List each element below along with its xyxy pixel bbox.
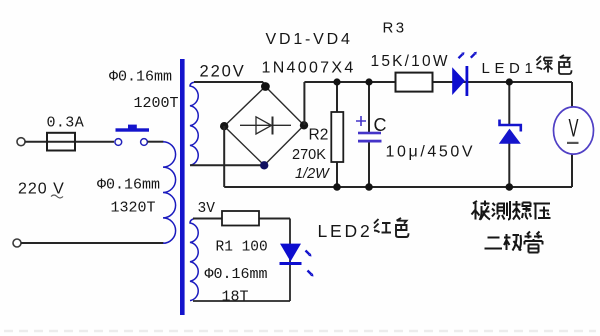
node bottom corner	[260, 161, 268, 169]
terminal J1 (mains top)	[17, 138, 25, 146]
zener diode under test	[508, 82, 510, 125]
svg-text:1/2W: 1/2W	[295, 166, 330, 182]
wire top rail	[304, 81, 572, 83]
bridge rectifier VD1-VD4 diamond	[224, 87, 304, 166]
LED1 light arrows	[459, 54, 475, 59]
transformer tertiary winding 18T	[190, 219, 198, 301]
wire	[21, 242, 164, 244]
svg-text:VD1-VD4: VD1-VD4	[266, 31, 353, 48]
transformer core	[180, 59, 185, 315]
svg-text:LED2: LED2	[318, 221, 373, 241]
wire secondary bottom to bridge	[190, 164, 263, 166]
node left corner	[220, 122, 228, 130]
svg-text:Φ0.16mm: Φ0.16mm	[97, 177, 160, 194]
voltmeter V	[571, 82, 573, 108]
svg-text:10μ/450V: 10μ/450V	[386, 144, 476, 161]
wire secondary top to bridge	[194, 81, 263, 83]
transformer T1 primary winding 1320T	[163, 142, 176, 244]
terminal J2 (mains bottom)	[13, 239, 21, 247]
wire switch to primary	[148, 141, 164, 143]
LED1	[452, 67, 465, 95]
resistor R1	[222, 211, 259, 226]
svg-text:270K: 270K	[292, 147, 326, 163]
svg-text:LED1: LED1	[482, 60, 538, 77]
svg-text:1200T: 1200T	[134, 95, 179, 112]
svg-text:Φ0.16mm: Φ0.16mm	[205, 266, 268, 283]
switch S contact left	[115, 139, 122, 146]
label red (hanzi 红色)	[374, 218, 409, 237]
svg-text:R2: R2	[309, 127, 329, 144]
resistor R2	[336, 82, 338, 112]
svg-text:18T: 18T	[222, 289, 249, 306]
node top corner	[261, 82, 270, 91]
wire bridge + output up	[303, 82, 305, 125]
svg-text:1N4007X4: 1N4007X4	[262, 60, 356, 77]
capacitor + sign	[356, 116, 366, 126]
svg-text:220V: 220V	[200, 63, 246, 81]
svg-text:3V: 3V	[198, 201, 216, 217]
faint cropped text row at bottom	[4, 330, 596, 332]
switch S bar	[116, 128, 150, 131]
svg-text:C: C	[374, 115, 387, 135]
switch S contact right	[141, 139, 148, 146]
LED2	[280, 244, 301, 262]
svg-text:R3: R3	[383, 20, 407, 37]
svg-text:1320T: 1320T	[111, 200, 156, 217]
wire	[25, 141, 114, 143]
resistor R3	[396, 73, 433, 92]
svg-text:15K/10W: 15K/10W	[371, 53, 450, 70]
svg-text:Φ0.16mm: Φ0.16mm	[109, 69, 172, 86]
wire bridge - output down	[223, 126, 225, 187]
svg-text:0.3A: 0.3A	[47, 115, 85, 132]
label zener under test (hanzi 被测稳压 / 二极管)	[472, 201, 551, 253]
svg-text:R1 100: R1 100	[216, 240, 268, 256]
wire 18T bottom	[193, 300, 290, 302]
label green (hanzi 绿色)	[537, 55, 572, 74]
capacitor C 10u/450V	[368, 82, 370, 133]
LED2 light arrows	[306, 251, 312, 275]
bridge inner diode	[240, 124, 291, 126]
transformer secondary winding 220V	[190, 82, 198, 165]
fuse FU 0.3A	[47, 133, 75, 151]
wire bottom rail	[224, 186, 572, 188]
wire right branch down	[289, 219, 291, 302]
svg-text:V: V	[568, 115, 578, 143]
wire 18T top	[193, 218, 290, 220]
node right corner	[300, 121, 308, 129]
svg-text:220 V: 220 V	[18, 181, 65, 198]
